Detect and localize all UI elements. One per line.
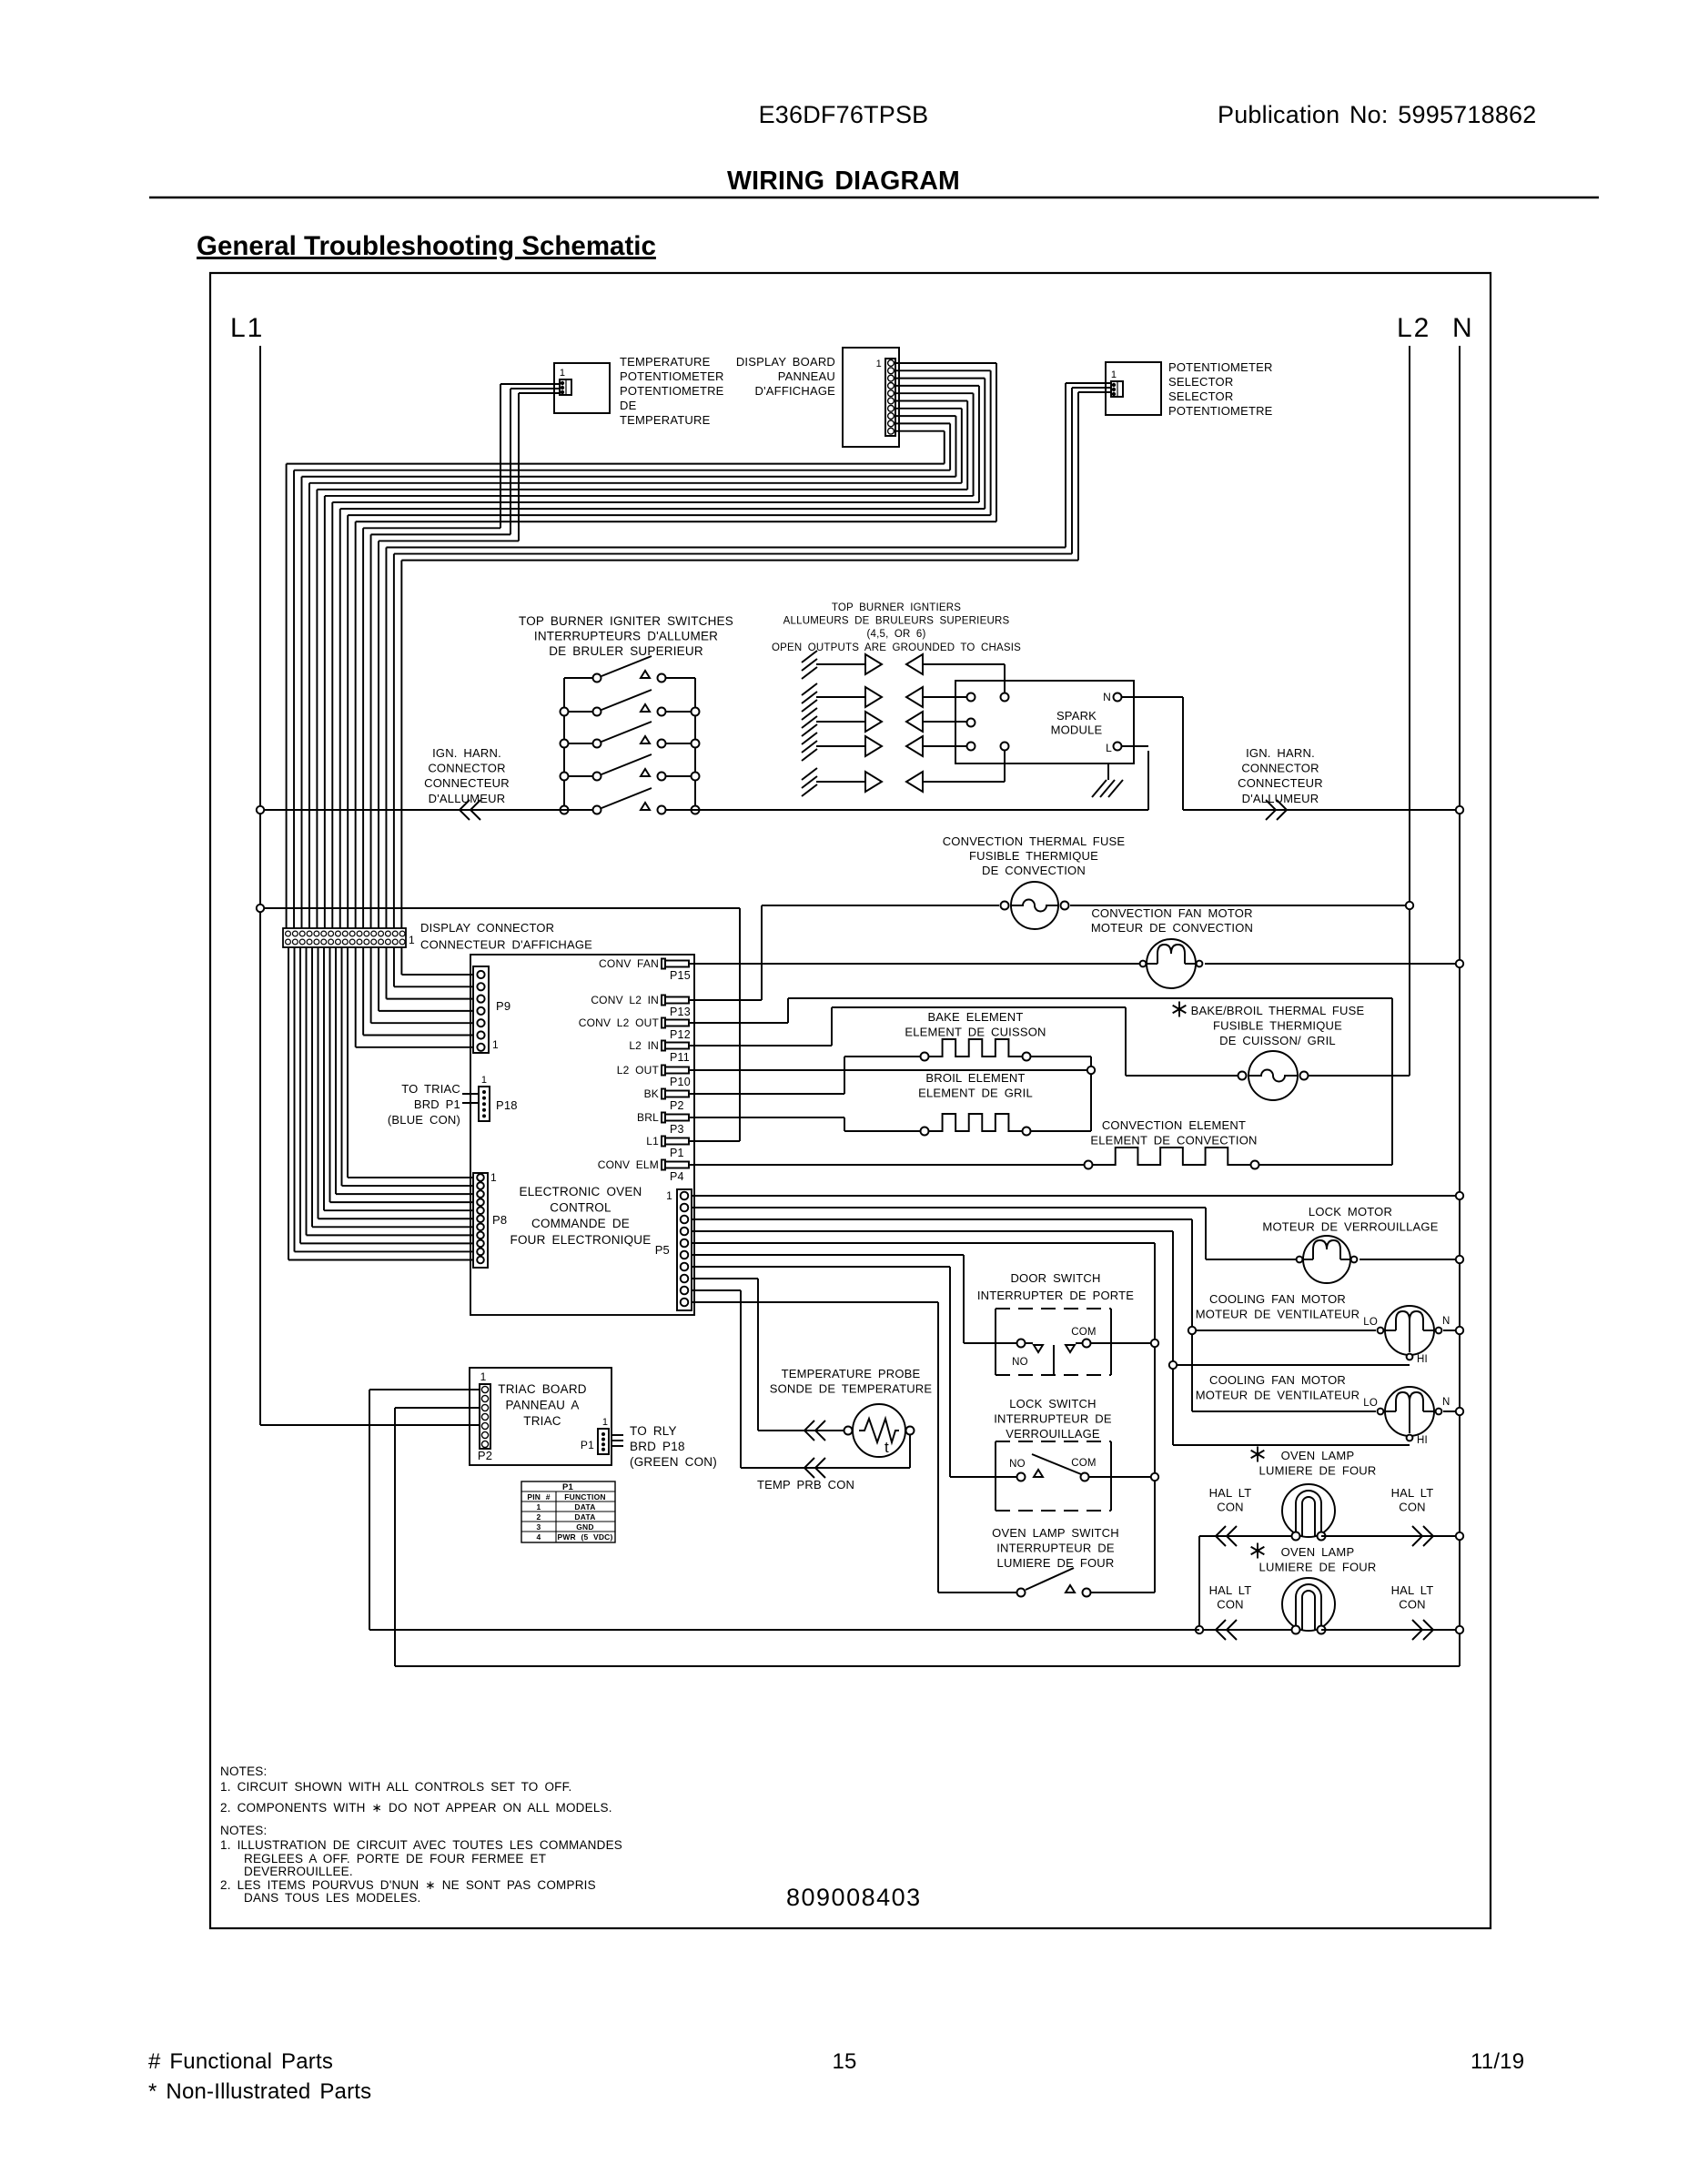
svg-text:SPARK: SPARK (1056, 709, 1097, 723)
electronic oven control box (470, 955, 694, 1315)
node N label (1452, 313, 1472, 343)
svg-text:IGN. HARN.: IGN. HARN. (432, 746, 501, 760)
svg-text:P3: P3 (670, 1123, 684, 1136)
top burner igniters label (772, 602, 1021, 653)
oven lamp 1 label (1251, 1447, 1377, 1478)
svg-text:DE BRULER SUPERIEUR: DE BRULER SUPERIEUR (549, 644, 703, 658)
svg-text:DE: DE (620, 399, 637, 412)
svg-text:POTENTIOMETRE: POTENTIOMETRE (620, 384, 724, 398)
P1 pin function table (521, 1481, 615, 1542)
svg-text:ALLUMEURS DE BRULEURS SUPER: ALLUMEURS DE BRULEURS SUPERIEURS (783, 616, 1010, 627)
svg-text:(BLUE CON): (BLUE CON) (388, 1113, 460, 1127)
svg-text:1: 1 (492, 1038, 499, 1051)
svg-text:PANNEAU: PANNEAU (778, 369, 835, 383)
footer date (1471, 2049, 1524, 2074)
svg-text:# Functional Parts: # Functional Parts (148, 2049, 333, 2074)
svg-text:DISPLAY BOARD: DISPLAY BOARD (736, 355, 835, 369)
convection fan motor label (1091, 906, 1253, 935)
svg-text:P8: P8 (492, 1213, 507, 1227)
svg-text:1. CIRCUIT SHOWN WITH AL: 1. CIRCUIT SHOWN WITH ALL CONTROLS SET T… (220, 1780, 572, 1794)
svg-text:CON: CON (1217, 1598, 1244, 1612)
junction N rail oven lamp 1 (1456, 1532, 1463, 1540)
svg-text:L1: L1 (646, 1135, 659, 1148)
svg-text:HI: HI (1417, 1435, 1428, 1446)
svg-text:DE CONVECTION: DE CONVECTION (982, 864, 1086, 877)
junction cooling fan LO (1188, 1327, 1196, 1334)
svg-text:CONTROL: CONTROL (550, 1201, 612, 1215)
bake element label (905, 1010, 1046, 1039)
svg-text:1: 1 (560, 368, 565, 379)
svg-text:REGLEES A OFF. PORTE DE: REGLEES A OFF. PORTE DE FOUR FERMEE ET (244, 1852, 546, 1865)
convection element (1085, 1148, 1259, 1169)
svg-text:NO: NO (1012, 1357, 1028, 1368)
convection thermal fuse label (943, 834, 1126, 877)
svg-text:1: 1 (490, 1171, 497, 1184)
svg-text:DANS TOUS LES MODELES.: DANS TOUS LES MODELES. (244, 1891, 420, 1905)
svg-text:IGN. HARN.: IGN. HARN. (1246, 746, 1315, 760)
subtitle General Troubleshooting Schematic (197, 231, 656, 261)
wire bundle display connector to P8 (288, 947, 473, 1260)
header publication number (1218, 101, 1536, 128)
svg-text:CONV L2 IN: CONV L2 IN (591, 994, 659, 1006)
wire igniter harness main line L1 to spark module L (260, 751, 1148, 820)
svg-text:COM: COM (1071, 1458, 1096, 1469)
svg-text:FOUR ELECTRONIQUE: FOUR ELECTRONIQUE (510, 1233, 652, 1247)
svg-text:TRIAC: TRIAC (523, 1414, 561, 1428)
wire P5-9 temperature probe return (692, 1290, 910, 1478)
junction L1 fuse line (257, 905, 264, 912)
EOC pin P4 CONV ELM (598, 1158, 689, 1183)
svg-text:ELEMENT DE GRIL: ELEMENT DE GRIL (918, 1087, 1033, 1100)
node L2 label (1397, 313, 1430, 343)
svg-text:P10: P10 (670, 1076, 691, 1088)
svg-text:SONDE DE TEMPERATURE: SONDE DE TEMPERATURE (770, 1382, 933, 1396)
header model number E36DF76TPSB (759, 101, 929, 128)
hal lt con labels lamp 1 (1209, 1486, 1434, 1514)
wire triac P2-1 to oven lamps feed (369, 1390, 1199, 1630)
svg-text:LOCK MOTOR: LOCK MOTOR (1309, 1205, 1392, 1218)
svg-text:CON: CON (1399, 1501, 1426, 1514)
svg-text:TEMP PRB CON: TEMP PRB CON (757, 1478, 854, 1491)
junction cooling fan HI (1169, 1361, 1177, 1369)
svg-text:D'AFFICHAGE: D'AFFICHAGE (755, 384, 836, 398)
svg-text:N: N (1103, 691, 1111, 703)
svg-text:N: N (1452, 313, 1472, 343)
svg-text:N: N (1442, 1397, 1450, 1408)
wire P3 BRL to broil element (690, 1117, 920, 1131)
svg-text:LUMIERE DE FOUR: LUMIERE DE FOUR (1259, 1464, 1377, 1478)
svg-text:P4: P4 (670, 1170, 684, 1183)
svg-text:(GREEN CON): (GREEN CON) (630, 1455, 717, 1469)
svg-text:1: 1 (602, 1417, 608, 1428)
svg-text:OVEN LAMP: OVEN LAMP (1281, 1449, 1355, 1462)
svg-text:VERROUILLAGE: VERROUILLAGE (1006, 1427, 1100, 1441)
svg-text:CON: CON (1399, 1598, 1426, 1612)
display connector label (420, 921, 592, 952)
svg-text:FUSIBLE THERMIQUE: FUSIBLE THERMIQUE (969, 849, 1098, 863)
svg-text:Publication No: 5995718862: Publication No: 5995718862 (1218, 101, 1536, 128)
svg-text:PWR (5 VDC): PWR (5 VDC) (557, 1532, 612, 1542)
junction COM chain door switch (1151, 1340, 1158, 1347)
svg-text:E36DF76TPSB: E36DF76TPSB (759, 101, 929, 128)
wire temperature potentiometer harness (3) (363, 384, 560, 541)
svg-text:INTERRUPTEUR DE: INTERRUPTEUR DE (996, 1542, 1115, 1555)
wire spark module N to N rail (1122, 697, 1460, 820)
wire P15 to convection fan motor (690, 963, 1140, 965)
oven lamp 2 (1199, 1578, 1460, 1640)
svg-text:P9: P9 (496, 999, 510, 1013)
svg-text:L2 IN: L2 IN (629, 1039, 659, 1052)
svg-text:D'ALLUMEUR: D'ALLUMEUR (429, 792, 506, 805)
svg-text:HAL LT: HAL LT (1209, 1583, 1252, 1597)
svg-text:D'ALLUMEUR: D'ALLUMEUR (1242, 792, 1319, 805)
svg-text:P15: P15 (670, 969, 691, 982)
svg-text:4: 4 (537, 1532, 541, 1542)
svg-text:CONVECTION FAN MOTOR: CONVECTION FAN MOTOR (1091, 906, 1252, 920)
junction N rail cooling fan 2 (1456, 1408, 1463, 1415)
title rule (149, 197, 1599, 199)
EOC pin P1 L1 (646, 1135, 689, 1159)
wire P2 BK to bake element (690, 1057, 920, 1094)
svg-text:NO: NO (1009, 1459, 1026, 1470)
wire P13 CONV L2 IN to fuse (690, 905, 762, 1000)
notes block french (220, 1824, 622, 1905)
svg-text:BK: BK (644, 1087, 659, 1100)
lock motor label (1262, 1205, 1438, 1234)
svg-text:POTENTIOMETER: POTENTIOMETER (1168, 360, 1273, 374)
EOC pin P12 CONV L2 OUT (579, 1016, 691, 1041)
svg-text:CONNECTEUR: CONNECTEUR (1238, 776, 1323, 790)
svg-text:2: 2 (537, 1512, 541, 1522)
wire P5-3 LO feed to cooling fan motors (692, 1219, 1376, 1411)
svg-text:CONV L2 OUT: CONV L2 OUT (579, 1016, 660, 1029)
cooling fan motor 2 (1363, 1387, 1460, 1446)
wire L1 to convection thermal fuse (260, 907, 740, 909)
ign harn connector label right (1238, 746, 1323, 805)
cooling fan motor 1 (1363, 1306, 1460, 1365)
svg-text:P1: P1 (562, 1482, 574, 1492)
oven lamp switch label (992, 1526, 1119, 1570)
to triac brd label (388, 1082, 460, 1127)
wire bundle display connector to P9 (356, 947, 473, 1047)
svg-text:P2: P2 (478, 1449, 492, 1462)
bake element (921, 1039, 1092, 1131)
broil element (921, 1114, 1092, 1136)
svg-text:DE CUISSON/ GRIL: DE CUISSON/ GRIL (1219, 1034, 1336, 1047)
svg-text:BRL: BRL (637, 1111, 659, 1124)
svg-text:DOOR SWITCH: DOOR SWITCH (1010, 1271, 1100, 1285)
svg-text:General Troubleshooting Schema: General Troubleshooting Schematic (197, 231, 656, 261)
svg-text:SELECTOR: SELECTOR (1168, 389, 1233, 403)
svg-text:CONNECTEUR: CONNECTEUR (424, 776, 510, 790)
svg-text:OPEN OUTPUTS ARE GROUNDED: OPEN OUTPUTS ARE GROUNDED TO CHASIS (772, 642, 1021, 653)
svg-text:LOCK SWITCH: LOCK SWITCH (1009, 1397, 1096, 1410)
temperature potentiometer box (554, 363, 610, 413)
svg-text:COOLING FAN MOTOR: COOLING FAN MOTOR (1209, 1373, 1346, 1387)
connector P1 triac (581, 1417, 623, 1454)
EOC pin P2 BK (644, 1087, 689, 1112)
svg-text:TO TRIAC: TO TRIAC (401, 1082, 460, 1096)
svg-text:L2: L2 (1397, 313, 1430, 343)
svg-text:CONNECTOR: CONNECTOR (1241, 762, 1319, 775)
junction N rail cooling fan 1 (1456, 1327, 1463, 1334)
svg-text:N: N (1442, 1316, 1450, 1327)
svg-text:PIN #: PIN # (527, 1492, 550, 1501)
junction N rail convection fan (1456, 960, 1463, 967)
convection element label (1090, 1118, 1257, 1148)
svg-text:CON: CON (1217, 1501, 1244, 1514)
door switch label (977, 1271, 1134, 1302)
junction N rail lock motor (1456, 1256, 1463, 1263)
footer page number (832, 2049, 856, 2074)
svg-text:WIRING DIAGRAM: WIRING DIAGRAM (727, 167, 960, 196)
cooling fan motor 1 label (1196, 1292, 1359, 1321)
svg-text:CONVECTION THERMAL FUSE: CONVECTION THERMAL FUSE (943, 834, 1126, 848)
svg-text:MODULE: MODULE (1051, 723, 1103, 737)
svg-text:BRD P1: BRD P1 (414, 1097, 460, 1111)
svg-text:TOP BURNER IGNTIERS: TOP BURNER IGNTIERS (832, 602, 961, 613)
EOC pin P11 L2 IN (629, 1039, 690, 1064)
junction N rail oven lamp 2 (1456, 1626, 1463, 1633)
svg-text:COMMANDE DE: COMMANDE DE (531, 1217, 630, 1230)
svg-text:HI: HI (1417, 1354, 1428, 1365)
svg-text:TOP BURNER IGNITER SWITCHES: TOP BURNER IGNITER SWITCHES (519, 614, 733, 628)
svg-text:POTENTIOMETRE: POTENTIOMETRE (1168, 404, 1273, 418)
svg-text:t: t (884, 1439, 889, 1456)
svg-text:HAL LT: HAL LT (1209, 1486, 1252, 1500)
svg-text:809008403: 809008403 (786, 1884, 922, 1911)
svg-text:1: 1 (1111, 369, 1117, 380)
svg-text:NOTES:: NOTES: (220, 1824, 267, 1837)
svg-text:FUNCTION: FUNCTION (564, 1492, 606, 1501)
svg-text:LUMIERE DE FOUR: LUMIERE DE FOUR (1259, 1561, 1377, 1574)
oven lamp 1 (1199, 1484, 1460, 1546)
bake broil thermal fuse (1238, 1051, 1410, 1100)
svg-text:OVEN LAMP: OVEN LAMP (1281, 1545, 1355, 1559)
svg-text:ELEMENT DE CUISSON: ELEMENT DE CUISSON (905, 1026, 1046, 1039)
svg-text:FUSIBLE THERMIQUE: FUSIBLE THERMIQUE (1213, 1019, 1342, 1033)
svg-text:BRD P18: BRD P18 (630, 1440, 685, 1453)
svg-text:P18: P18 (496, 1098, 518, 1112)
svg-text:INTERRUPTER DE PORTE: INTERRUPTER DE PORTE (977, 1289, 1134, 1302)
svg-text:OVEN LAMP SWITCH: OVEN LAMP SWITCH (992, 1526, 1119, 1540)
junction bake broil L2 OUT (1087, 1067, 1095, 1074)
svg-text:POTENTIOMETER: POTENTIOMETER (620, 369, 724, 383)
temperature probe (844, 1404, 915, 1457)
svg-text:BAKE/BROIL THERMAL FUSE: BAKE/BROIL THERMAL FUSE (1191, 1004, 1365, 1017)
junction COM chain lock switch (1151, 1473, 1158, 1481)
potentiometer selector label (1168, 360, 1273, 418)
connector P2 triac (478, 1370, 492, 1462)
convection fan motor (1140, 939, 1460, 988)
oven lamp switch (1017, 1568, 1156, 1597)
wire N rail (1459, 346, 1461, 1666)
cooling fan motor 2 label (1196, 1373, 1359, 1402)
wire oven lamp riser (1198, 1536, 1200, 1630)
svg-text:NOTES:: NOTES: (220, 1764, 267, 1778)
oven lamp 2 label (1251, 1543, 1377, 1574)
broil element label (918, 1071, 1033, 1100)
potentiometer selector box (1106, 362, 1161, 415)
wire P12 CONV L2 OUT to convection element return (690, 998, 1392, 1165)
svg-text:1: 1 (666, 1189, 672, 1202)
svg-text:3: 3 (537, 1522, 541, 1532)
connector P18 to triac board (462, 1075, 518, 1121)
schematic border (210, 273, 1491, 1928)
EOC pin P13 CONV L2 IN (591, 994, 691, 1018)
convection thermal fuse (762, 882, 1410, 929)
svg-text:DEVERROUILLEE.: DEVERROUILLEE. (244, 1865, 353, 1878)
svg-text:SELECTOR: SELECTOR (1168, 375, 1233, 389)
svg-text:TRIAC BOARD: TRIAC BOARD (498, 1382, 587, 1396)
svg-text:CONNECTOR: CONNECTOR (428, 762, 505, 775)
ground chassis below spark module (1092, 763, 1123, 797)
svg-text:* Non-Illustrated Parts: * Non-Illustrated Parts (148, 2079, 371, 2104)
svg-text:CONVECTION ELEMENT: CONVECTION ELEMENT (1102, 1118, 1246, 1132)
hal lt con labels lamp 2 (1209, 1583, 1434, 1612)
junction L2 fuse line (1406, 902, 1413, 909)
svg-text:11/19: 11/19 (1471, 2049, 1524, 2074)
svg-text:1: 1 (481, 1075, 487, 1086)
junction N rail igniter (1456, 806, 1463, 814)
svg-text:HAL LT: HAL LT (1391, 1583, 1434, 1597)
connector P5 (655, 1189, 692, 1310)
temp prb con label (757, 1478, 854, 1491)
lock switch label (994, 1397, 1112, 1441)
svg-text:15: 15 (832, 2049, 856, 2074)
EOC pin P15 CONV FAN (599, 957, 691, 982)
svg-text:CONNECTEUR D'AFFICHAGE: CONNECTEUR D'AFFICHAGE (420, 938, 592, 952)
svg-text:TEMPERATURE: TEMPERATURE (620, 413, 711, 427)
svg-text:P5: P5 (655, 1243, 670, 1257)
footer functional parts legend (148, 2049, 371, 2104)
node L1 label (230, 313, 264, 343)
svg-text:CONV FAN: CONV FAN (599, 957, 659, 970)
connector P9 (473, 966, 510, 1053)
svg-text:L2 OUT: L2 OUT (617, 1064, 660, 1077)
svg-text:DATA: DATA (574, 1502, 595, 1512)
svg-text:MOTEUR DE VENTILATEUR: MOTEUR DE VENTILATEUR (1196, 1389, 1359, 1402)
wire P5-4 HI feed to cooling fan motors (692, 1231, 1410, 1445)
svg-text:1: 1 (409, 934, 415, 946)
svg-text:DISPLAY CONNECTOR: DISPLAY CONNECTOR (420, 921, 554, 935)
svg-text:P1: P1 (581, 1439, 594, 1451)
svg-text:INTERRUPTEUR DE: INTERRUPTEUR DE (994, 1412, 1112, 1426)
connector P8 (473, 1171, 507, 1268)
svg-text:MOTEUR DE VENTILATEUR: MOTEUR DE VENTILATEUR (1196, 1308, 1359, 1321)
svg-text:LO: LO (1363, 1398, 1378, 1409)
svg-text:LUMIERE DE FOUR: LUMIERE DE FOUR (997, 1556, 1115, 1570)
lock motor (1297, 1236, 1460, 1283)
svg-text:MOTEUR DE VERROUILLAGE: MOTEUR DE VERROUILLAGE (1262, 1220, 1438, 1234)
svg-text:BROIL ELEMENT: BROIL ELEMENT (925, 1071, 1025, 1085)
EOC pin P3 BRL (637, 1111, 689, 1136)
svg-text:2. LES ITEMS POURVUS D'N: 2. LES ITEMS POURVUS D'NUN ∗ NE SONT PAS… (220, 1878, 596, 1892)
svg-text:TEMPERATURE: TEMPERATURE (620, 355, 711, 369)
display board label (736, 355, 835, 398)
wire P5-7 to lock switch NO (692, 1267, 1016, 1477)
display board box (843, 348, 899, 447)
svg-text:HAL LT: HAL LT (1391, 1486, 1434, 1500)
top burner igniter switches label (519, 614, 733, 658)
lock switch (996, 1441, 1155, 1511)
wire L1 rail (259, 346, 261, 1425)
display connector (283, 928, 415, 947)
svg-text:LO: LO (1363, 1317, 1378, 1328)
wire bundle display board to harness nest (287, 363, 996, 521)
wire P5-1 to N rail (692, 1195, 1460, 1197)
svg-text:P13: P13 (670, 1006, 691, 1018)
svg-text:1: 1 (876, 359, 882, 369)
svg-text:DATA: DATA (574, 1512, 595, 1522)
wire L1 to triac P2-5 (260, 1424, 480, 1426)
wire L2 rail (1409, 346, 1410, 1076)
door switch (996, 1309, 1155, 1375)
wire potentiometer selector harness (3) (386, 383, 1111, 561)
svg-text:BAKE ELEMENT: BAKE ELEMENT (927, 1010, 1023, 1024)
top burner igniters rows (802, 651, 1005, 796)
wire P5-10 to oven lamp switch (692, 1302, 1016, 1592)
EOC pin P10 L2 OUT (617, 1064, 691, 1088)
wire P4 CONV ELM to convection element (690, 1164, 1084, 1166)
ign harn connector label left (424, 746, 510, 805)
temperature probe label (770, 1367, 933, 1396)
wire P1 L1 riser (688, 908, 740, 1141)
svg-text:ELEMENT DE CONVECTION: ELEMENT DE CONVECTION (1090, 1134, 1257, 1148)
svg-text:1: 1 (480, 1370, 487, 1383)
svg-text:TEMPERATURE PROBE: TEMPERATURE PROBE (782, 1367, 921, 1380)
top burner igniter switches ladder (561, 656, 700, 814)
svg-text:TO RLY: TO RLY (630, 1424, 677, 1438)
svg-text:PANNEAU A: PANNEAU A (505, 1399, 579, 1412)
junction L1 igniter line (257, 806, 264, 814)
triac board box (470, 1368, 612, 1465)
wire P5-6 to door switch NO (692, 1255, 1016, 1343)
svg-text:L: L (1106, 742, 1112, 754)
to rly brd label (630, 1424, 717, 1469)
wire P5-2 to lock motor (692, 1208, 1299, 1259)
svg-text:MOTEUR DE CONVECTION: MOTEUR DE CONVECTION (1091, 921, 1253, 935)
svg-text:1: 1 (537, 1502, 541, 1512)
wire triac P2-3 to N rail bottom (395, 1408, 1460, 1666)
bake broil thermal fuse label (1173, 1002, 1365, 1048)
junction N rail P5-1 (1456, 1192, 1463, 1199)
svg-text:(4,5, OR 6): (4,5, OR 6) (866, 629, 925, 640)
svg-text:ELECTRONIC OVEN: ELECTRONIC OVEN (519, 1185, 642, 1198)
svg-text:L1: L1 (230, 313, 264, 343)
junction oven lamp feed (1196, 1626, 1203, 1633)
title WIRING DIAGRAM (727, 167, 960, 196)
svg-text:GND: GND (576, 1522, 594, 1532)
temperature potentiometer label (620, 355, 724, 427)
wire P11 L2 IN to bake broil thermal fuse (690, 1007, 1242, 1076)
svg-text:CONV ELM: CONV ELM (598, 1158, 659, 1171)
svg-text:2. COMPONENTS WITH ∗ DO: 2. COMPONENTS WITH ∗ DO NOT APPEAR ON AL… (220, 1801, 612, 1815)
svg-text:P1: P1 (670, 1147, 684, 1159)
svg-text:COM: COM (1071, 1327, 1096, 1338)
svg-text:INTERRUPTEURS D'ALLUMER: INTERRUPTEURS D'ALLUMER (534, 630, 718, 643)
svg-text:P2: P2 (670, 1099, 684, 1112)
wire P10 L2 OUT to elements junction (690, 1069, 1091, 1071)
svg-text:P11: P11 (670, 1051, 690, 1064)
wire bundle harness staircase to display connector (287, 464, 402, 928)
wire P5-5 COM chain (692, 1243, 1155, 1592)
document number 809008403 (786, 1884, 922, 1911)
svg-text:P12: P12 (670, 1028, 691, 1041)
notes block english (220, 1764, 612, 1815)
svg-text:1. ILLUSTRATION DE CIRCUI: 1. ILLUSTRATION DE CIRCUIT AVEC TOUTES L… (220, 1838, 622, 1852)
wire P5-8 to temperature probe (692, 1279, 853, 1441)
